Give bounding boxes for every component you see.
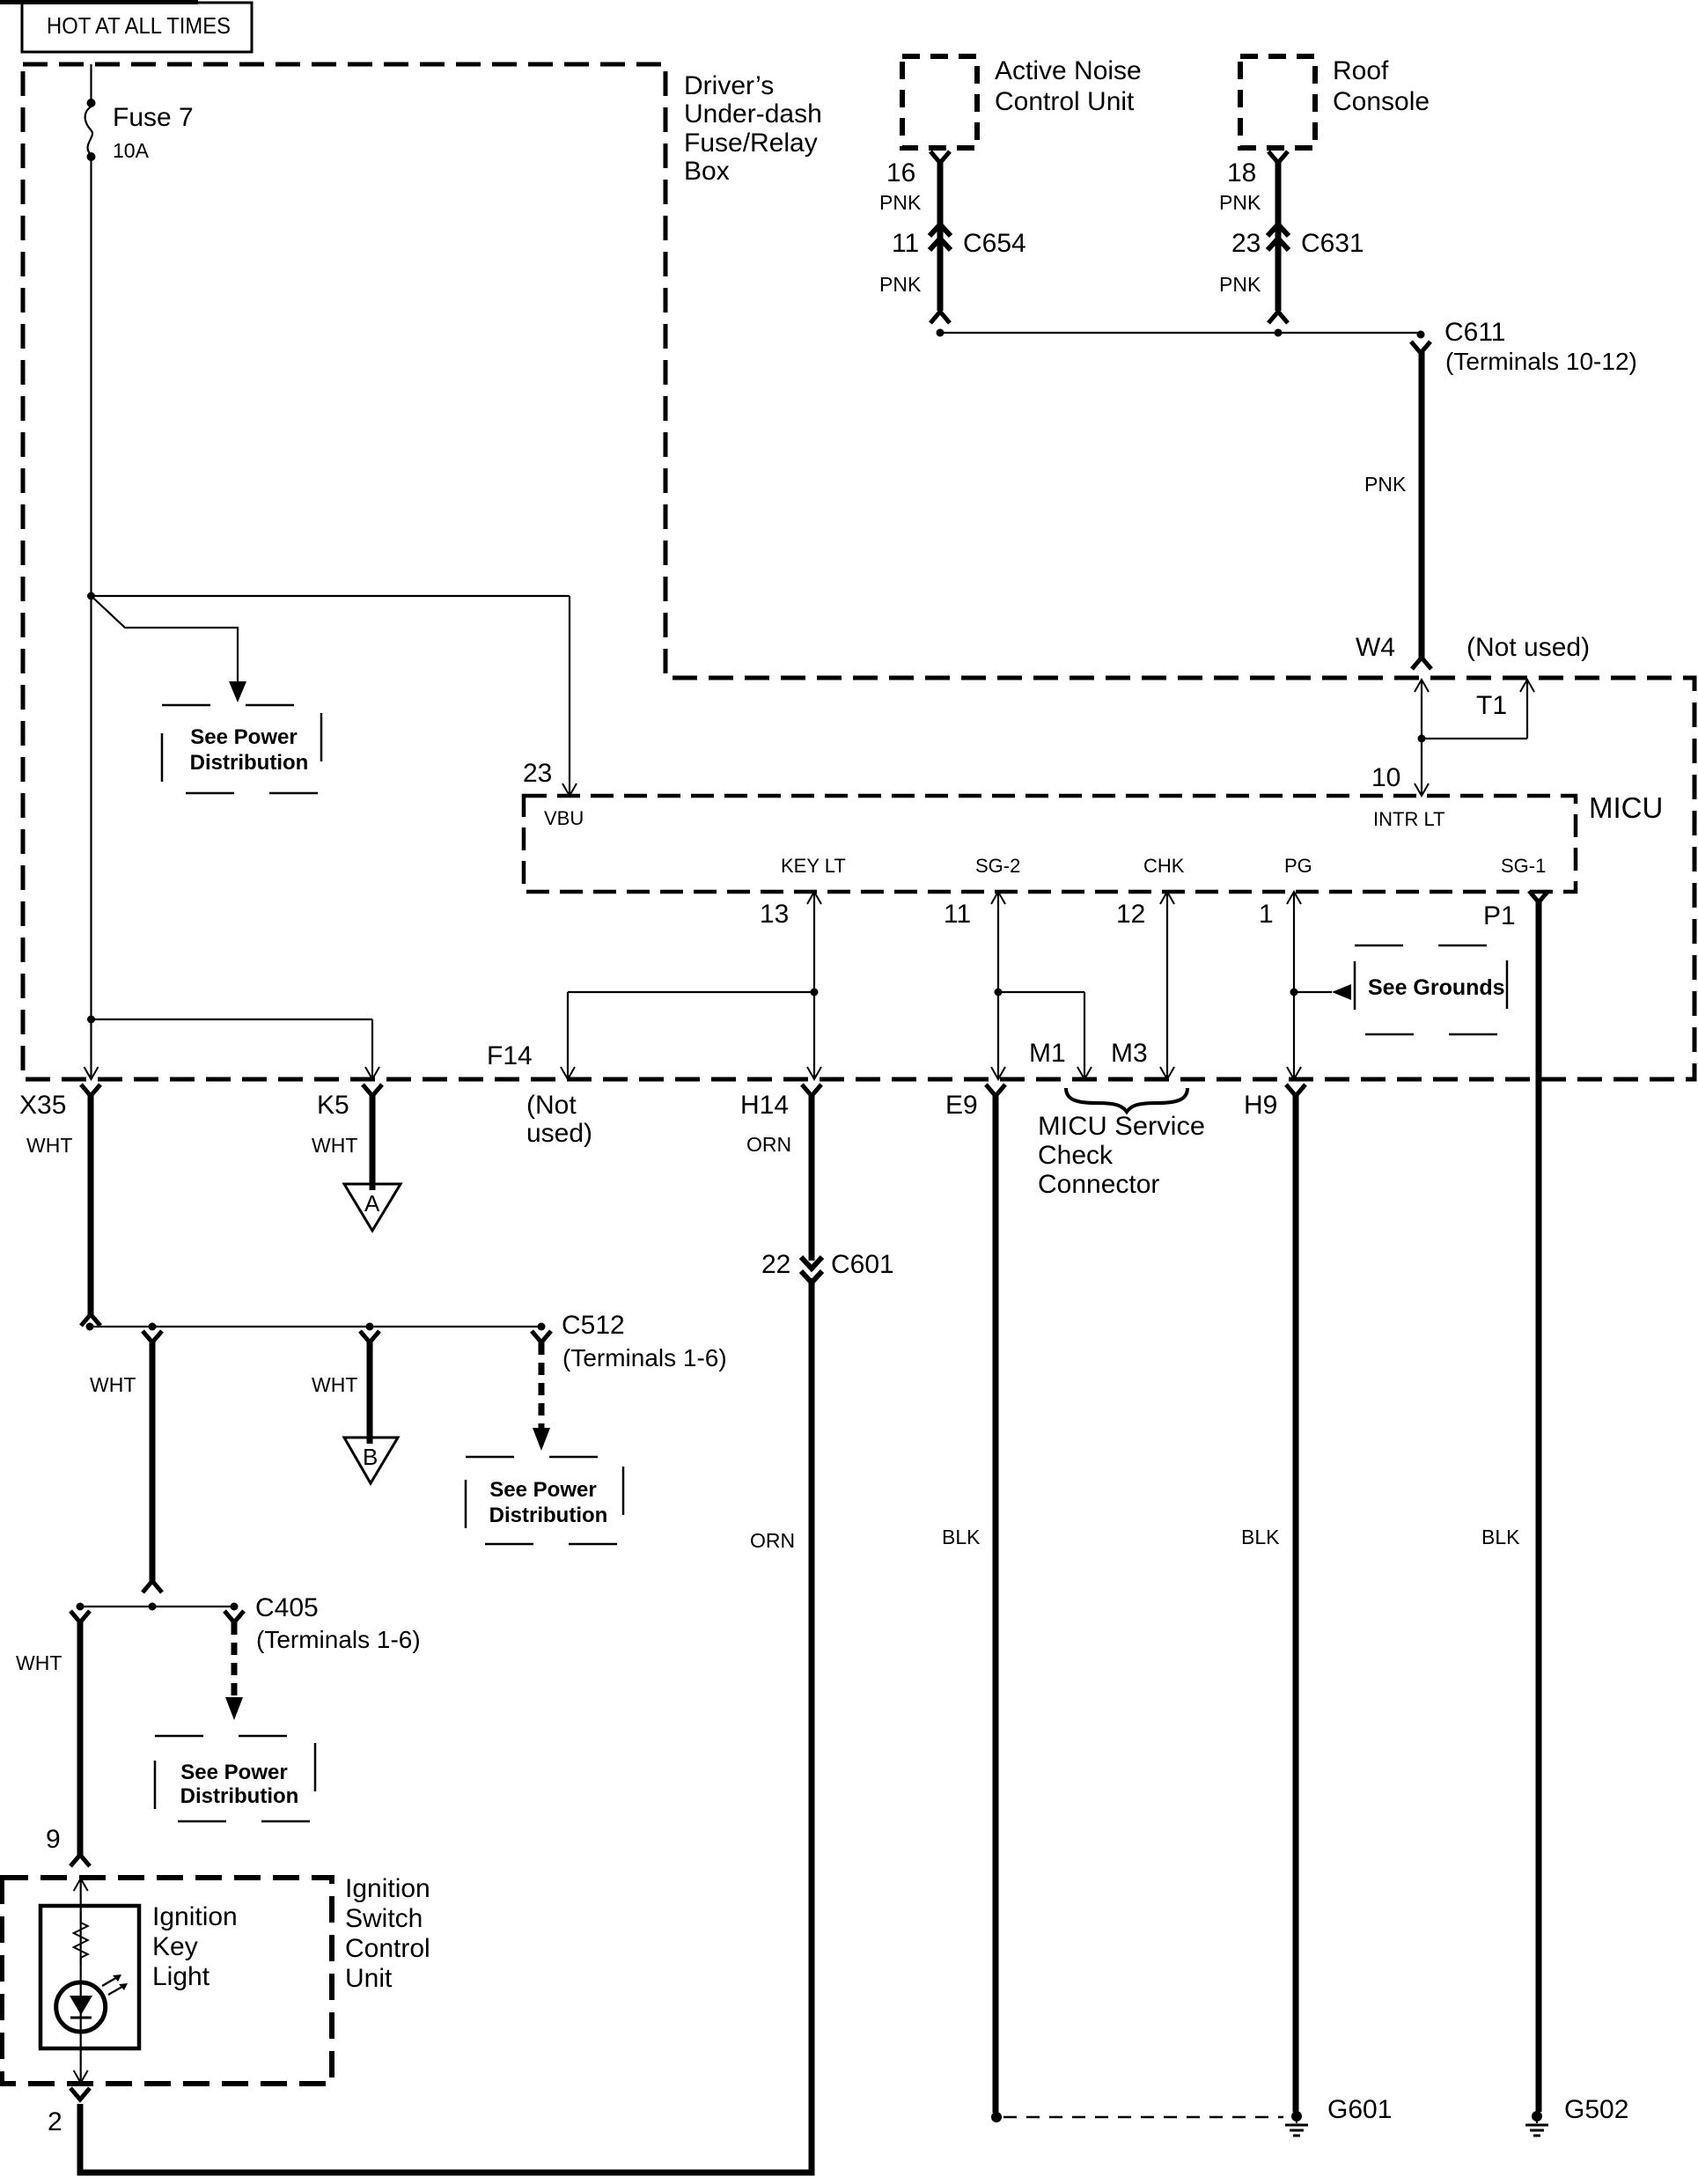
svg-text:(Not: (Not xyxy=(526,1091,577,1120)
svg-text:(Not used): (Not used) xyxy=(1466,633,1590,662)
svg-text:BLK: BLK xyxy=(1481,1526,1520,1548)
svg-text:PNK: PNK xyxy=(879,191,922,214)
svg-text:WHT: WHT xyxy=(312,1134,357,1157)
svg-text:C405: C405 xyxy=(255,1593,319,1622)
svg-text:WHT: WHT xyxy=(16,1651,62,1674)
svg-text:VBU: VBU xyxy=(544,807,584,829)
svg-text:23: 23 xyxy=(523,759,552,788)
svg-text:WHT: WHT xyxy=(26,1134,72,1157)
svg-text:13: 13 xyxy=(760,900,789,929)
svg-text:10: 10 xyxy=(1371,763,1400,792)
svg-text:MICU: MICU xyxy=(1589,791,1663,824)
svg-text:X35: X35 xyxy=(19,1091,66,1120)
svg-text:Fuse 7: Fuse 7 xyxy=(113,103,194,132)
svg-text:G601: G601 xyxy=(1327,2095,1392,2124)
svg-text:Under-dash: Under-dash xyxy=(684,99,822,129)
svg-text:Ignition: Ignition xyxy=(152,1902,238,1931)
svg-text:PNK: PNK xyxy=(1364,473,1407,496)
svg-text:E9: E9 xyxy=(945,1091,978,1120)
svg-text:See Power: See Power xyxy=(190,725,297,749)
svg-text:Control Unit: Control Unit xyxy=(995,87,1135,116)
svg-text:HOT AT ALL TIMES: HOT AT ALL TIMES xyxy=(47,12,231,39)
svg-text:used): used) xyxy=(526,1119,592,1148)
svg-text:Active Noise: Active Noise xyxy=(995,56,1142,85)
svg-text:CHK: CHK xyxy=(1143,855,1185,877)
svg-text:C611: C611 xyxy=(1444,318,1506,347)
svg-text:PG: PG xyxy=(1284,855,1312,877)
svg-text:PNK: PNK xyxy=(1219,191,1261,214)
svg-text:Console: Console xyxy=(1333,87,1430,116)
svg-text:WHT: WHT xyxy=(90,1373,136,1396)
svg-text:(Terminals 10-12): (Terminals 10-12) xyxy=(1445,348,1637,375)
svg-text:Distribution: Distribution xyxy=(489,1504,608,1527)
svg-text:MICU Service: MICU Service xyxy=(1038,1112,1205,1141)
svg-text:INTR LT: INTR LT xyxy=(1373,808,1444,830)
svg-text:23: 23 xyxy=(1231,229,1261,258)
svg-text:See Power: See Power xyxy=(489,1478,596,1502)
svg-text:B: B xyxy=(363,1444,378,1470)
svg-text:C654: C654 xyxy=(963,229,1026,258)
svg-text:K5: K5 xyxy=(317,1091,349,1120)
svg-text:H14: H14 xyxy=(740,1091,789,1120)
svg-text:Ignition: Ignition xyxy=(345,1874,430,1903)
svg-text:22: 22 xyxy=(761,1250,790,1279)
svg-text:Distribution: Distribution xyxy=(190,751,309,775)
svg-text:Key: Key xyxy=(152,1932,198,1961)
svg-text:PNK: PNK xyxy=(879,273,922,296)
svg-text:Control: Control xyxy=(345,1934,430,1963)
svg-text:11: 11 xyxy=(944,900,971,929)
svg-text:(Terminals 1-6): (Terminals 1-6) xyxy=(256,1626,421,1653)
svg-text:SG-2: SG-2 xyxy=(975,855,1020,877)
svg-text:18: 18 xyxy=(1227,158,1256,188)
svg-text:2: 2 xyxy=(48,2107,62,2136)
svg-text:ORN: ORN xyxy=(746,1133,791,1156)
svg-text:M1: M1 xyxy=(1029,1039,1066,1068)
svg-text:PNK: PNK xyxy=(1219,273,1261,296)
svg-text:See Grounds: See Grounds xyxy=(1368,975,1505,1000)
svg-text:12: 12 xyxy=(1116,900,1145,929)
svg-text:11: 11 xyxy=(892,229,919,258)
svg-text:Unit: Unit xyxy=(345,1964,393,1993)
svg-text:BLK: BLK xyxy=(1241,1526,1280,1548)
svg-text:C601: C601 xyxy=(831,1250,894,1279)
svg-text:KEY LT: KEY LT xyxy=(781,855,846,877)
svg-text:9: 9 xyxy=(46,1825,61,1854)
svg-text:Connector: Connector xyxy=(1038,1170,1159,1199)
svg-text:Driver’s: Driver’s xyxy=(684,71,774,100)
svg-text:Distribution: Distribution xyxy=(180,1784,299,1808)
svg-text:W4: W4 xyxy=(1356,633,1395,662)
svg-text:Switch: Switch xyxy=(345,1904,423,1933)
svg-text:H9: H9 xyxy=(1244,1091,1277,1120)
svg-text:1: 1 xyxy=(1259,900,1274,929)
svg-text:(Terminals 1-6): (Terminals 1-6) xyxy=(562,1344,727,1371)
svg-text:M3: M3 xyxy=(1111,1039,1148,1068)
svg-text:Check: Check xyxy=(1038,1141,1114,1170)
svg-text:BLK: BLK xyxy=(942,1526,981,1548)
svg-text:C512: C512 xyxy=(562,1311,625,1340)
svg-text:10A: 10A xyxy=(113,139,150,162)
svg-text:16: 16 xyxy=(886,158,915,188)
svg-text:Box: Box xyxy=(684,157,730,186)
svg-text:P1: P1 xyxy=(1483,901,1516,930)
svg-text:F14: F14 xyxy=(487,1041,533,1070)
svg-text:SG-1: SG-1 xyxy=(1501,855,1546,877)
svg-text:See Power: See Power xyxy=(180,1761,287,1784)
svg-text:C631: C631 xyxy=(1301,229,1364,258)
svg-text:ORN: ORN xyxy=(750,1529,795,1552)
svg-text:G502: G502 xyxy=(1564,2095,1628,2124)
svg-text:Light: Light xyxy=(152,1962,210,1991)
svg-text:A: A xyxy=(364,1190,380,1217)
svg-text:T1: T1 xyxy=(1476,691,1507,720)
svg-text:Fuse/Relay: Fuse/Relay xyxy=(684,129,818,158)
svg-text:Roof: Roof xyxy=(1333,56,1389,85)
svg-text:WHT: WHT xyxy=(312,1373,357,1396)
